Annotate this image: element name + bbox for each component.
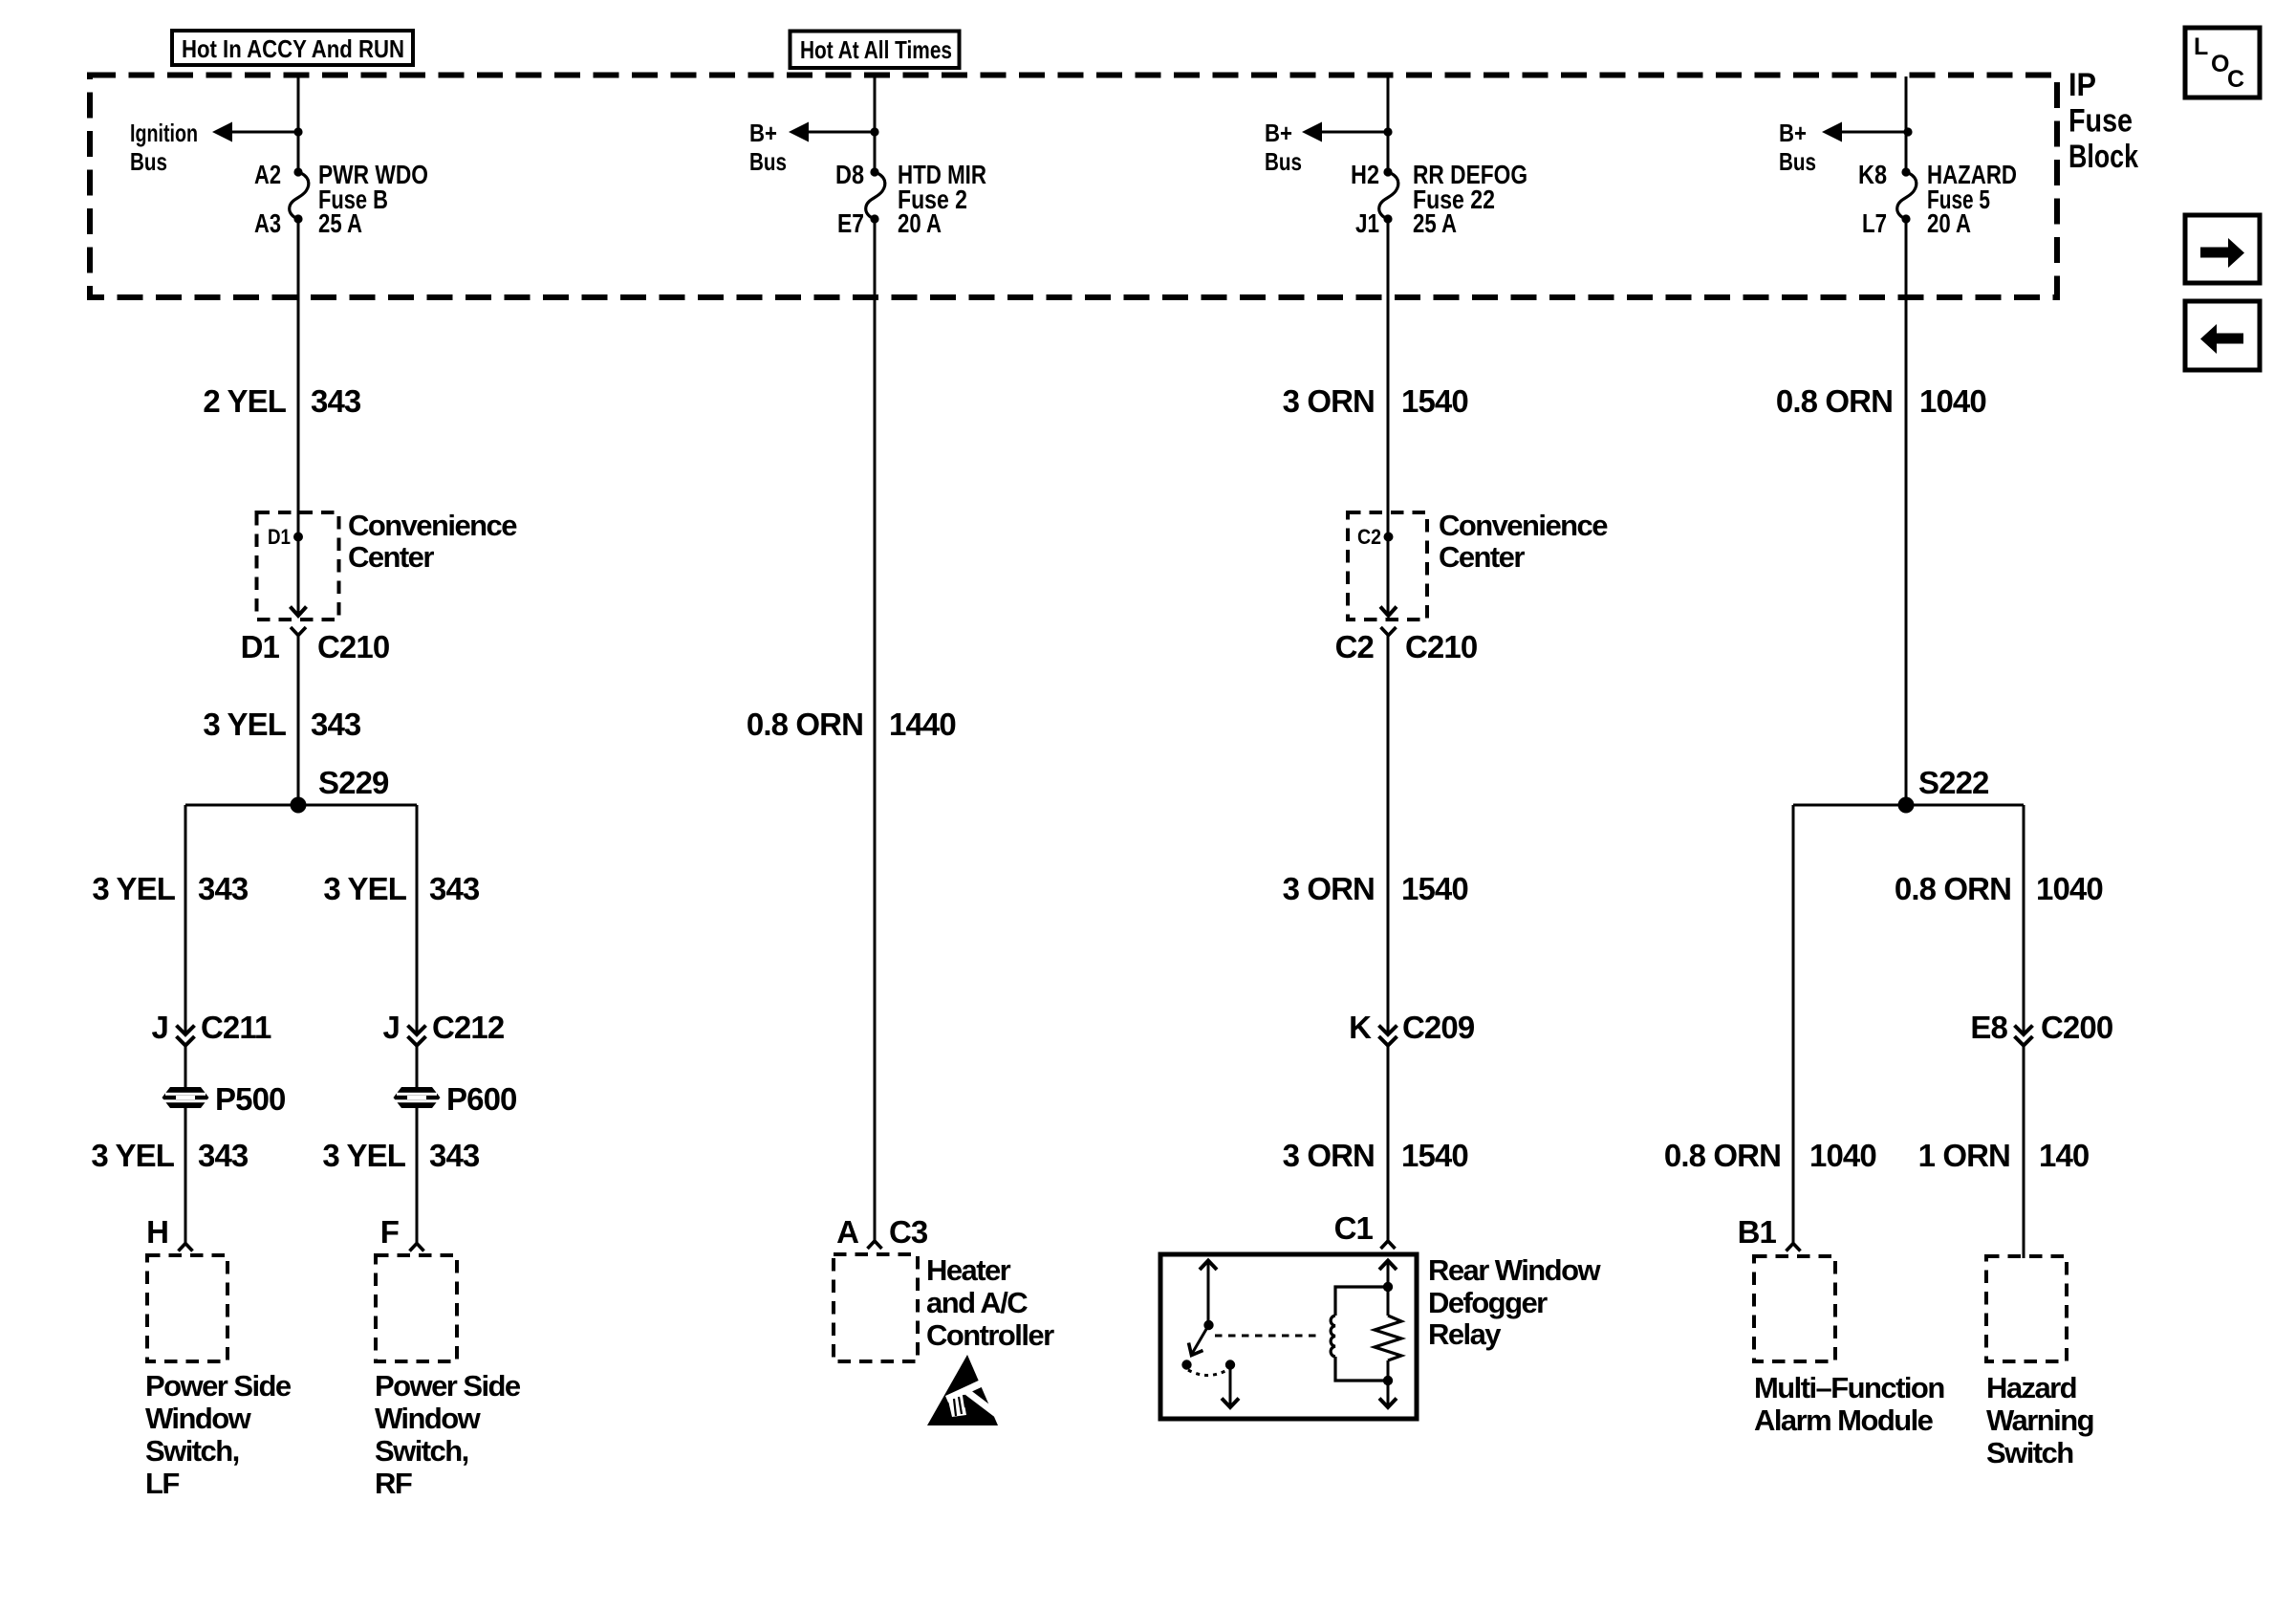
Ignition Bus label	[130, 119, 198, 176]
B+ Bus arrow (col2)	[789, 122, 879, 142]
svg-text:Controller: Controller	[926, 1318, 1054, 1352]
svg-text:C210: C210	[1405, 629, 1477, 664]
svg-text:Switch: Switch	[1986, 1436, 2073, 1469]
svg-text:1 ORN: 1 ORN	[1918, 1138, 2010, 1173]
svg-text:Hot At All Times: Hot At All Times	[800, 35, 952, 64]
fuse name PWR WDO Fuse B 25 A	[318, 160, 428, 238]
fuse name HAZARD Fuse 5 20 A	[1927, 160, 2017, 238]
relay coupling dashed line	[1215, 1335, 1318, 1338]
svg-text:Hazard: Hazard	[1986, 1371, 2076, 1404]
wire label 3 ORN 1540 (mid)	[1283, 871, 1468, 906]
svg-text:20 A: 20 A	[1927, 208, 1971, 238]
connector C209 chevrons	[1379, 1026, 1397, 1046]
svg-text:Warning: Warning	[1986, 1403, 2093, 1437]
svg-text:J1: J1	[1355, 208, 1379, 238]
fuse terminal labels K8 L7	[1858, 160, 1887, 238]
svg-text:Window: Window	[145, 1402, 252, 1435]
fuse name HTD MIR Fuse 2 20 A	[898, 160, 986, 238]
wire label 2 YEL 343	[203, 383, 361, 419]
svg-text:343: 343	[429, 871, 480, 906]
wire 0.8 ORN 1440 down to heater controller	[874, 219, 877, 1241]
LOC reference box	[2185, 28, 2260, 98]
svg-text:A3: A3	[254, 208, 281, 238]
svg-text:3 YEL: 3 YEL	[91, 1138, 174, 1173]
Convenience Center caption (right)	[1439, 509, 1608, 574]
connector label J C211	[152, 1010, 271, 1045]
svg-text:C1: C1	[1334, 1210, 1374, 1246]
svg-text:K: K	[1349, 1010, 1372, 1045]
terminal C1 chevron	[1381, 1241, 1396, 1249]
svg-text:Rear Window: Rear Window	[1428, 1253, 1601, 1287]
svg-text:L: L	[2194, 33, 2208, 60]
wire 0.8 ORN 1040 to C200	[2023, 805, 2025, 1034]
relay switch pivot dot	[1203, 1320, 1213, 1330]
fuse terminal labels A2 A3	[254, 160, 281, 238]
svg-text:B+: B+	[1779, 119, 1807, 147]
relay coil junction dots	[1383, 1282, 1393, 1385]
Convenience Center dashed box (C2)	[1348, 512, 1427, 620]
svg-text:3 ORN: 3 ORN	[1283, 1138, 1375, 1173]
svg-text:Switch,: Switch,	[375, 1434, 468, 1468]
ESD sensitive device symbol	[927, 1355, 1001, 1425]
connector label C2 C210	[1335, 629, 1478, 664]
svg-text:3 YEL: 3 YEL	[92, 871, 175, 906]
grommet P600	[394, 1087, 441, 1108]
svg-text:A: A	[836, 1214, 858, 1250]
prev-page left arrow box	[2185, 301, 2260, 370]
B+ Bus label (col3)	[1265, 119, 1302, 176]
wire label 3 YEL 343 (lower right)	[322, 1138, 480, 1173]
wire 3 ORN 1540 to relay	[1387, 1046, 1390, 1242]
relay switch movable arm with arrowhead	[1189, 1325, 1209, 1356]
svg-text:H2: H2	[1351, 160, 1379, 189]
svg-text:343: 343	[198, 871, 249, 906]
svg-text:Block: Block	[2069, 139, 2138, 175]
svg-text:J: J	[152, 1010, 168, 1045]
svg-text:Power Side: Power Side	[375, 1369, 521, 1403]
wire: HAZARD feed, x=1994	[1905, 76, 1908, 172]
svg-text:0.8 ORN: 0.8 ORN	[747, 707, 863, 742]
wire 0.8 ORN 1040 to alarm module	[1792, 805, 1795, 1243]
svg-text:D1: D1	[241, 629, 280, 664]
grommet P500	[162, 1087, 209, 1108]
fuse HAZARD Fuse 5 20 A	[1897, 167, 1917, 223]
wire label 0.8 ORN 1040	[1776, 383, 1986, 419]
svg-text:LF: LF	[145, 1467, 179, 1500]
svg-text:1040: 1040	[1809, 1138, 1876, 1173]
terminal H chevron	[179, 1244, 193, 1251]
wire 1 ORN 140 to hazard switch	[2023, 1046, 2025, 1259]
wire 3 YEL 343 to splice S229	[297, 636, 300, 806]
svg-text:S229: S229	[318, 765, 389, 800]
svg-text:D1: D1	[268, 525, 291, 549]
svg-text:1540: 1540	[1401, 871, 1468, 906]
svg-text:0.8 ORN: 0.8 ORN	[1664, 1138, 1781, 1173]
svg-text:D8: D8	[835, 160, 864, 189]
svg-text:20 A: 20 A	[898, 208, 942, 238]
wire label 0.8 ORN 1440	[747, 707, 956, 742]
svg-text:J: J	[383, 1010, 400, 1045]
svg-text:C: C	[2227, 66, 2244, 93]
connector C211 chevrons	[177, 1026, 195, 1046]
terminal label A C3	[836, 1214, 928, 1250]
svg-text:P600: P600	[446, 1081, 516, 1117]
svg-text:C211: C211	[201, 1010, 271, 1045]
connector C200 chevrons	[2015, 1026, 2033, 1046]
svg-text:Bus: Bus	[130, 147, 167, 176]
terminal F chevron	[410, 1244, 424, 1251]
svg-text:Heater: Heater	[926, 1253, 1011, 1287]
svg-text:C2: C2	[1357, 525, 1381, 549]
svg-text:H: H	[146, 1214, 168, 1250]
wire label 3 YEL 343 (left)	[92, 871, 249, 906]
Power Side Window Switch RF dashed box	[376, 1255, 457, 1361]
fuse terminal labels D8 E7	[835, 160, 864, 238]
Hot At All Times label box	[791, 32, 960, 69]
svg-text:and A/C: and A/C	[926, 1286, 1028, 1319]
wire label 3 YEL 343 (right)	[323, 871, 480, 906]
svg-text:Multi–Function: Multi–Function	[1754, 1371, 1944, 1404]
svg-text:3 YEL: 3 YEL	[322, 1138, 405, 1173]
caption Power Side Window Switch, LF	[145, 1369, 292, 1500]
svg-text:Alarm Module: Alarm Module	[1754, 1403, 1934, 1437]
svg-text:E8: E8	[1970, 1010, 2007, 1045]
wire 3 ORN 1540 to C209	[1387, 636, 1390, 1035]
B+ Bus label (col4)	[1779, 119, 1816, 176]
svg-text:3 ORN: 3 ORN	[1283, 871, 1375, 906]
svg-text:Center: Center	[348, 540, 434, 574]
svg-text:Defogger: Defogger	[1428, 1286, 1548, 1319]
connector C210 female chevron (col3)	[1381, 627, 1397, 636]
wire: RR DEFOG feed, x=1452	[1387, 76, 1390, 172]
svg-text:3 YEL: 3 YEL	[323, 871, 406, 906]
svg-text:Ignition: Ignition	[130, 119, 198, 147]
svg-text:Hot In ACCY And RUN: Hot In ACCY And RUN	[182, 34, 404, 63]
wire label 3 YEL 343 (lower left)	[91, 1138, 249, 1173]
svg-text:Power Side: Power Side	[145, 1369, 292, 1403]
wire label 3 ORN 1540 (low)	[1283, 1138, 1468, 1173]
svg-text:Center: Center	[1439, 540, 1525, 574]
wire label 3 YEL 343	[203, 707, 361, 742]
terminal B1 chevron	[1787, 1244, 1801, 1251]
svg-text:1540: 1540	[1401, 383, 1468, 419]
connector label J C212	[383, 1010, 505, 1045]
wire 2 YEL 343 from fuse to convenience center	[297, 219, 300, 616]
svg-text:1540: 1540	[1401, 1138, 1468, 1173]
svg-text:Relay: Relay	[1428, 1317, 1502, 1351]
svg-text:Bus: Bus	[749, 147, 787, 176]
wire label 3 ORN 1540	[1283, 383, 1468, 419]
svg-text:3 YEL: 3 YEL	[203, 707, 286, 742]
fuse HTD MIR Fuse 2 20 A	[866, 167, 885, 223]
arrowhead into connector C210	[291, 607, 307, 617]
connector C212 chevrons	[408, 1026, 426, 1046]
svg-text:C2: C2	[1335, 629, 1375, 664]
wire to grommet P500	[184, 1046, 187, 1244]
IP Fuse Block label	[2069, 67, 2138, 175]
Hazard Warning Switch dashed box	[1986, 1256, 2067, 1361]
connector label K C209	[1349, 1010, 1475, 1045]
svg-text:Window: Window	[375, 1402, 482, 1435]
svg-text:S222: S222	[1918, 765, 1989, 800]
connector label D1 C210	[241, 629, 390, 664]
svg-text:B+: B+	[1265, 119, 1292, 147]
caption Power Side Window Switch, RF	[375, 1369, 521, 1500]
svg-text:343: 343	[198, 1138, 249, 1173]
B+ Bus arrow (col4)	[1822, 122, 1913, 142]
B+ Bus label (col2)	[749, 119, 787, 176]
splice S222	[1793, 797, 2024, 814]
IP Fuse Block dashed outline	[90, 76, 2057, 298]
B+ Bus arrow (col3)	[1302, 122, 1393, 142]
caption Hazard Warning Switch	[1986, 1371, 2093, 1469]
svg-text:Convenience: Convenience	[1439, 509, 1608, 542]
svg-text:343: 343	[429, 1138, 480, 1173]
wire 3 YEL 343 right branch to C212	[416, 805, 419, 1034]
svg-text:C200: C200	[2041, 1010, 2112, 1045]
svg-text:1440: 1440	[889, 707, 956, 742]
svg-text:0.8 ORN: 0.8 ORN	[1895, 871, 2011, 906]
wire 0.8 ORN 1040 to splice S222	[1905, 219, 1908, 805]
arrowhead into connector C210 (col3)	[1380, 607, 1397, 617]
Convenience Center dashed box (D1)	[257, 512, 339, 620]
svg-text:B1: B1	[1738, 1214, 1777, 1250]
relay dotted throw arc	[1188, 1370, 1227, 1376]
fuse RR DEFOG Fuse 22 25 A	[1379, 167, 1398, 223]
svg-text:Switch,: Switch,	[145, 1434, 239, 1468]
connector C210 female chevron	[291, 627, 306, 636]
svg-text:Convenience: Convenience	[348, 509, 517, 542]
svg-text:25 A: 25 A	[1413, 208, 1457, 238]
svg-text:C209: C209	[1402, 1010, 1475, 1045]
Multi-Function Alarm Module dashed box	[1754, 1256, 1835, 1361]
terminal D1 dot	[293, 533, 303, 542]
relay coil	[1331, 1287, 1388, 1381]
fuse terminal labels H2 J1	[1351, 160, 1379, 238]
wire to grommet P600	[416, 1046, 419, 1244]
svg-text:2 YEL: 2 YEL	[203, 383, 286, 419]
relay main line with up-arrow, resistor, down-arrow	[1375, 1261, 1401, 1408]
fuse PWR WDO Fuse B 25 A	[290, 167, 309, 223]
wire label 0.8 ORN 1040 (left low)	[1664, 1138, 1876, 1173]
Heater and A/C Controller dashed box	[834, 1254, 918, 1361]
svg-text:K8: K8	[1858, 160, 1887, 189]
relay output wire with down-arrow	[1222, 1365, 1239, 1408]
svg-text:Bus: Bus	[1265, 147, 1302, 176]
svg-text:RF: RF	[375, 1467, 412, 1500]
svg-text:343: 343	[311, 707, 361, 742]
svg-text:25 A: 25 A	[318, 208, 362, 238]
Rear Window Defogger Relay box	[1160, 1254, 1417, 1419]
terminal C2 dot	[1384, 533, 1394, 542]
splice S229	[185, 797, 417, 814]
relay switch fixed contact up-arrow	[1200, 1261, 1217, 1326]
next-page right arrow box	[2185, 215, 2260, 283]
svg-text:Bus: Bus	[1779, 147, 1816, 176]
wire 3 ORN 1540 to convenience center	[1387, 219, 1390, 616]
svg-text:1040: 1040	[1919, 383, 1986, 419]
svg-text:E7: E7	[837, 208, 864, 238]
wire: PWR WDO feed from bus, x=312	[297, 76, 300, 172]
svg-text:0.8 ORN: 0.8 ORN	[1776, 383, 1893, 419]
wire label 1 ORN 140	[1918, 1138, 2090, 1173]
wire label 0.8 ORN 1040 (right)	[1895, 871, 2103, 906]
svg-text:3 ORN: 3 ORN	[1283, 383, 1375, 419]
fuse name RR DEFOG Fuse 22 25 A	[1413, 160, 1527, 238]
Ignition Bus arrow	[212, 122, 303, 142]
svg-text:IP: IP	[2069, 67, 2096, 103]
svg-text:L7: L7	[1862, 208, 1887, 238]
svg-text:P500: P500	[215, 1081, 285, 1117]
svg-text:C3: C3	[889, 1214, 928, 1250]
svg-text:343: 343	[311, 383, 361, 419]
connector label E8 C200	[1970, 1010, 2112, 1045]
svg-text:A2: A2	[254, 160, 281, 189]
svg-text:F: F	[380, 1214, 399, 1250]
svg-text:C212: C212	[432, 1010, 505, 1045]
Power Side Window Switch LF dashed box	[147, 1255, 227, 1361]
svg-text:1040: 1040	[2036, 871, 2103, 906]
svg-text:C210: C210	[317, 629, 389, 664]
caption Heater and A/C Controller	[926, 1253, 1054, 1352]
caption Multi-Function Alarm Module	[1754, 1371, 1944, 1437]
terminal A chevron at C3	[868, 1241, 882, 1249]
wire 3 YEL 343 left branch to C211	[184, 805, 187, 1034]
relay contact dots	[1181, 1360, 1235, 1369]
svg-text:B+: B+	[749, 119, 777, 147]
svg-text:140: 140	[2039, 1138, 2089, 1173]
svg-text:Fuse: Fuse	[2069, 103, 2133, 140]
Hot In ACCY And RUN label box	[172, 31, 413, 65]
wire: HTD MIR feed, x=915	[874, 76, 877, 172]
Convenience Center caption	[348, 509, 517, 574]
caption Rear Window Defogger Relay	[1428, 1253, 1601, 1351]
